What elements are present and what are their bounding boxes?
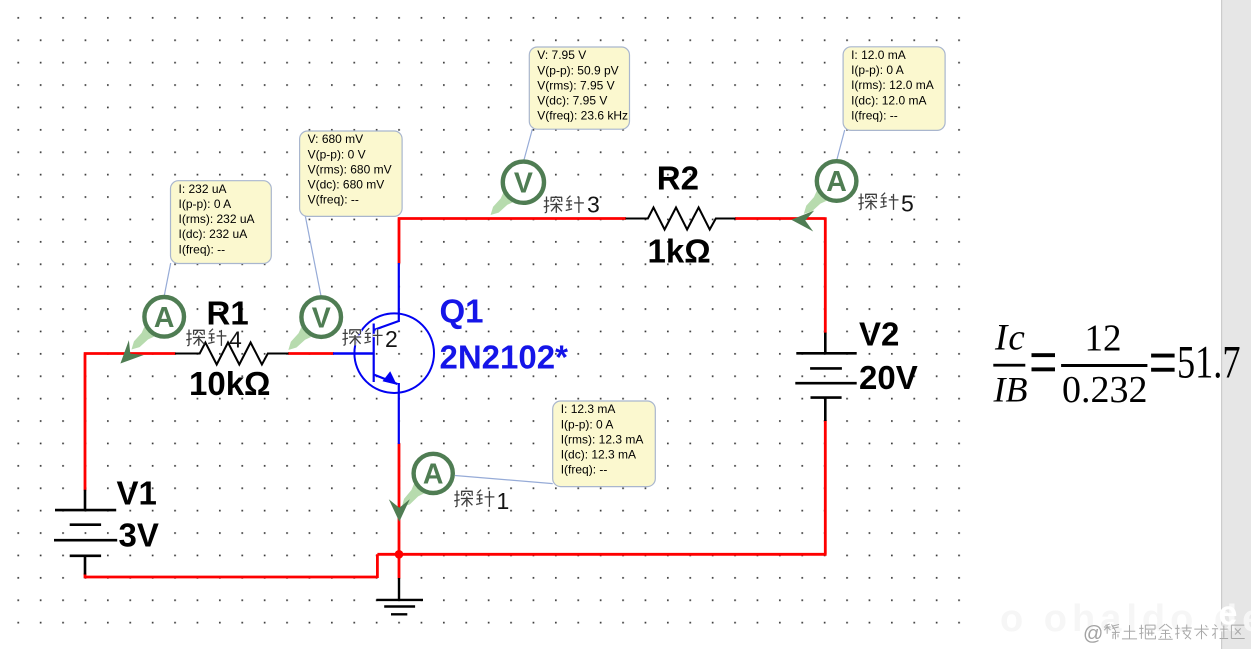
svg-text:V(rms): 680 mV: V(rms): 680 mV: [308, 162, 392, 176]
svg-text:I(p-p): 0 A: I(p-p): 0 A: [561, 417, 614, 431]
svg-text:R1: R1: [207, 295, 249, 332]
svg-text:V(dc): 7.95 V: V(dc): 7.95 V: [537, 94, 607, 108]
svg-text:20V: 20V: [859, 359, 918, 396]
svg-text:I(dc): 232 uA: I(dc): 232 uA: [179, 227, 248, 241]
svg-text:V(p-p): 0 V: V(p-p): 0 V: [308, 147, 366, 161]
svg-text:I(p-p): 0 A: I(p-p): 0 A: [179, 197, 232, 211]
svg-text:1kΩ: 1kΩ: [648, 233, 711, 270]
svg-text:V: 680 mV: V: 680 mV: [308, 132, 364, 146]
svg-text:2N2102*: 2N2102*: [440, 339, 569, 376]
svg-text:V(dc): 680 mV: V(dc): 680 mV: [308, 178, 385, 192]
svg-text:Ic: Ic: [994, 318, 1026, 359]
svg-text:R2: R2: [657, 160, 699, 197]
svg-text:5: 5: [901, 191, 914, 217]
svg-text:V2: V2: [859, 316, 899, 353]
svg-text:I: 12.0 mA: I: 12.0 mA: [851, 48, 906, 62]
svg-text:@: @: [1083, 623, 1103, 645]
svg-text:e: e: [1219, 595, 1238, 633]
svg-text:V1: V1: [117, 475, 157, 512]
svg-text:A: A: [423, 459, 444, 491]
svg-text:3V: 3V: [119, 517, 159, 554]
svg-text:V: V: [514, 167, 533, 199]
svg-text:2: 2: [385, 326, 398, 352]
svg-text:10kΩ: 10kΩ: [189, 365, 271, 402]
svg-text:V(freq): --: V(freq): --: [308, 193, 359, 207]
svg-text:I(freq): --: I(freq): --: [561, 463, 608, 477]
svg-text:I(rms): 232 uA: I(rms): 232 uA: [179, 212, 255, 226]
svg-text:V(p-p): 50.9 pV: V(p-p): 50.9 pV: [537, 63, 618, 77]
svg-text:I(freq): --: I(freq): --: [851, 108, 898, 122]
svg-text:o ohaldo de: o ohaldo de: [1000, 598, 1251, 640]
svg-text:Q1: Q1: [440, 293, 484, 330]
svg-text:1: 1: [497, 488, 510, 514]
svg-text:12: 12: [1085, 317, 1122, 359]
svg-text:I: 232 uA: I: 232 uA: [179, 182, 227, 196]
svg-text:0.232: 0.232: [1062, 369, 1148, 411]
svg-text:V(rms): 7.95 V: V(rms): 7.95 V: [537, 78, 614, 92]
svg-text:I(rms): 12.3 mA: I(rms): 12.3 mA: [561, 432, 644, 446]
svg-text:I(dc): 12.0 mA: I(dc): 12.0 mA: [851, 93, 926, 107]
svg-text:3: 3: [587, 192, 600, 218]
svg-text:V: 7.95 V: V: 7.95 V: [537, 48, 586, 62]
svg-text:IB: IB: [993, 370, 1028, 410]
svg-text:I: 12.3 mA: I: 12.3 mA: [561, 402, 616, 416]
svg-text:V(freq): 23.6 kHz: V(freq): 23.6 kHz: [537, 109, 628, 123]
svg-text:V: V: [312, 302, 331, 334]
svg-text:I(freq): --: I(freq): --: [179, 242, 226, 256]
svg-text:51.7: 51.7: [1177, 338, 1241, 389]
svg-text:I(rms): 12.0 mA: I(rms): 12.0 mA: [851, 78, 934, 92]
svg-text:I(dc): 12.3 mA: I(dc): 12.3 mA: [561, 448, 636, 462]
svg-text:I(p-p): 0 A: I(p-p): 0 A: [851, 63, 904, 77]
svg-text:A: A: [826, 166, 847, 198]
svg-text:A: A: [154, 302, 175, 334]
